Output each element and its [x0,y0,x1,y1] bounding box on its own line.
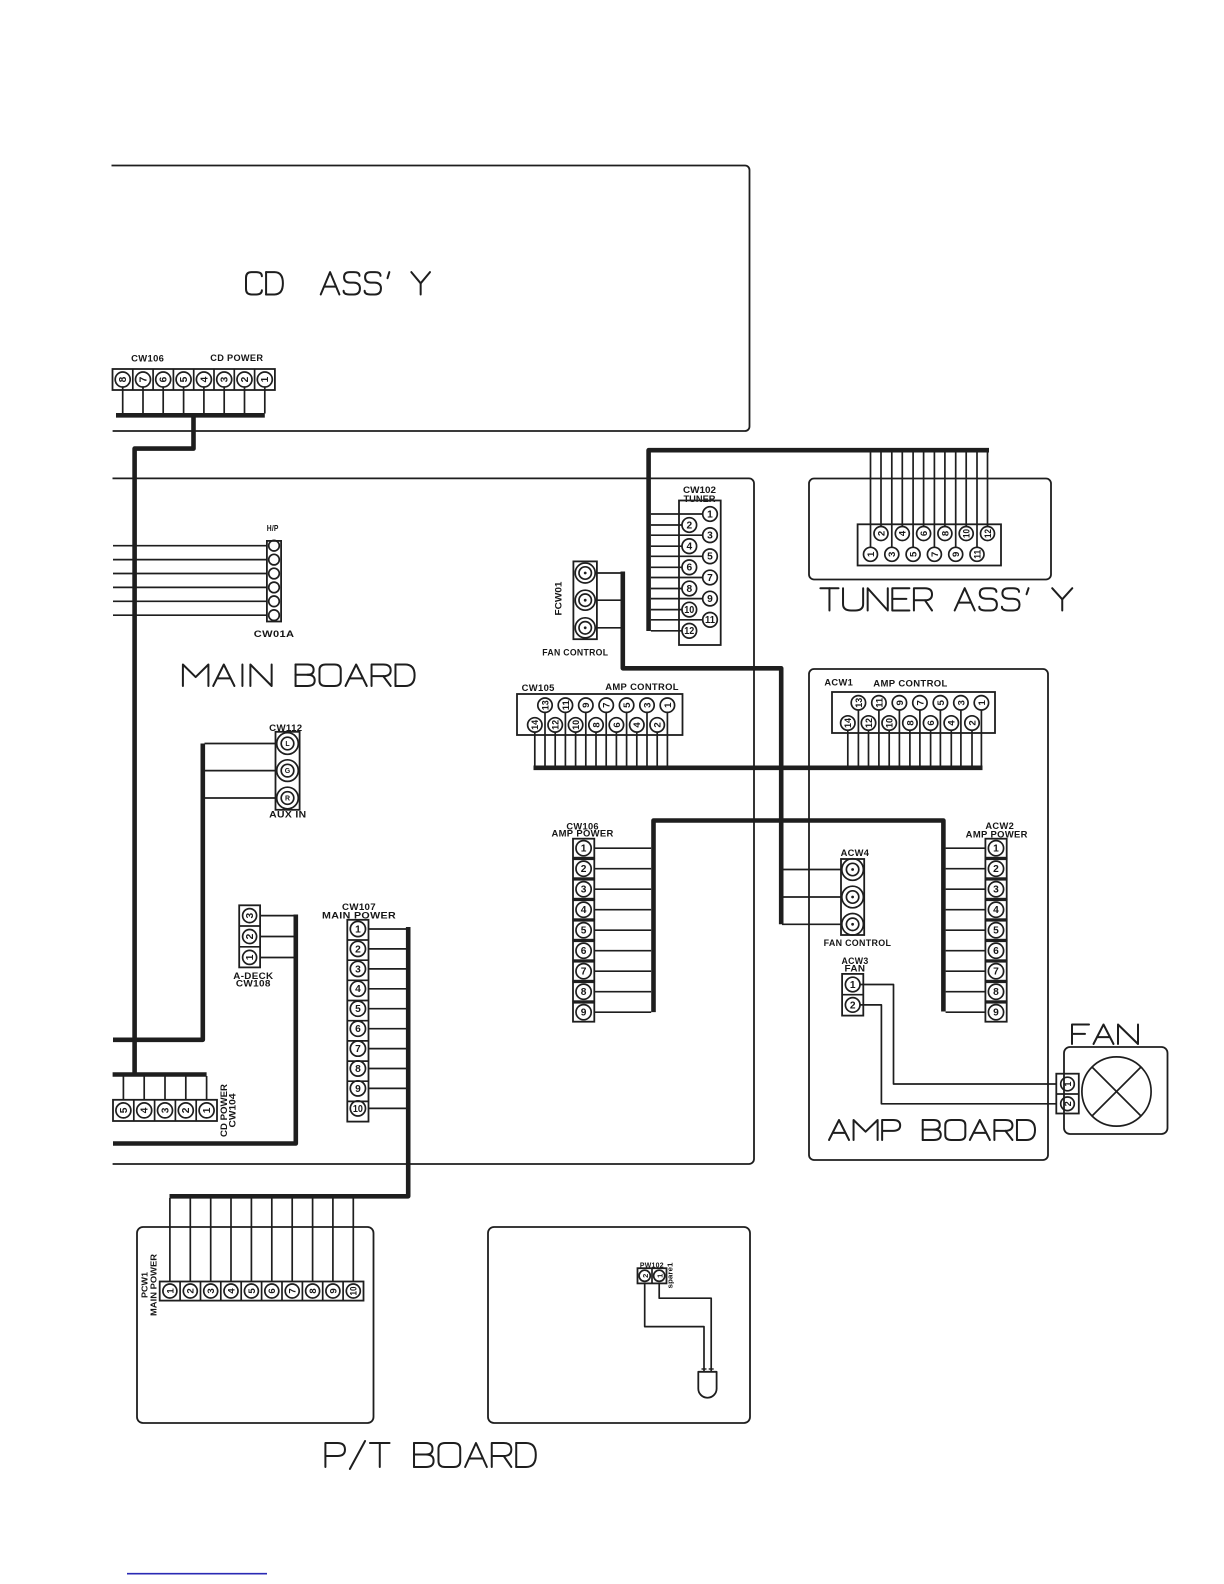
wires from CW106 pins to CD-power bundle [123,387,265,414]
svg-text:FAN CONTROL: FAN CONTROL [824,938,892,948]
svg-text:10: 10 [684,605,694,616]
wires bundle to CW104 pins (5x) [123,1076,206,1100]
wires CW107 to main-power cable (10x) [369,929,407,1108]
svg-text:2: 2 [245,933,256,939]
connector PCW1 (MAIN POWER) body (10 pins) [160,1282,364,1301]
svg-text:6: 6 [686,563,692,574]
thick cable CW106 to CW104 (CD POWER) [135,414,194,1075]
svg-text:G: G [285,768,291,775]
svg-text:10: 10 [349,1287,360,1296]
svg-text:4: 4 [947,720,958,726]
svg-text:6: 6 [993,946,999,957]
board title P/T BOARD [325,1441,535,1469]
svg-text:14: 14 [530,719,541,730]
title FAN [1072,1025,1138,1045]
svg-text:AUX IN: AUX IN [269,810,306,820]
svg-text:3: 3 [642,703,653,708]
cable bundle bar above CW104 [113,1072,207,1077]
connector CW106 AMP POWER body (9 pins) [573,839,594,1022]
svg-text:CW105: CW105 [522,683,555,693]
svg-text:6: 6 [926,720,937,725]
svg-text:CW108: CW108 [236,979,271,989]
svg-text:9: 9 [581,703,592,708]
svg-text:1: 1 [260,376,271,382]
connector CW105 body (14 pins zigzag) [517,694,683,735]
svg-text:2: 2 [686,520,692,531]
svg-text:ACW1: ACW1 [824,678,853,688]
wires fan-control cable to ACW4 jacks (3x) [782,870,841,925]
svg-text:7: 7 [138,376,149,382]
board outline: MAIN BOARD (open left side) [113,478,755,1164]
svg-text:6: 6 [919,531,930,536]
svg-text:FAN: FAN [845,964,866,974]
board outline: CD ASS'Y (open left side) [112,166,750,432]
svg-text:7: 7 [581,967,587,978]
svg-text:3: 3 [160,1107,171,1113]
board outline: P/T BOARD [137,1227,374,1423]
svg-text:FCW01: FCW01 [554,582,564,616]
svg-text:12: 12 [864,718,875,728]
svg-text:10: 10 [885,718,896,728]
board title MAIN BOARD [183,665,415,686]
thick amp-control cable CW105 to ACW1 [534,765,983,770]
svg-text:5: 5 [993,926,999,937]
svg-text:4: 4 [199,376,210,382]
svg-text:8: 8 [686,584,692,595]
svg-text:4: 4 [581,905,587,916]
svg-text:8: 8 [905,720,916,726]
svg-text:9: 9 [328,1288,339,1293]
connector ACW4 body with RCA jacks [841,859,864,935]
svg-text:1: 1 [977,699,988,705]
svg-text:9: 9 [355,1084,361,1095]
svg-text:2: 2 [240,376,251,382]
svg-text:4: 4 [686,542,692,553]
svg-text:6: 6 [267,1288,278,1293]
svg-text:2: 2 [181,1107,192,1113]
svg-text:2: 2 [355,944,361,955]
wires ACW1 pins down to amp-control cable (14x) [848,710,982,766]
svg-text:12: 12 [551,720,562,730]
svg-text:11: 11 [972,549,983,559]
svg-text:14: 14 [843,717,854,728]
svg-text:5: 5 [581,926,587,937]
svg-text:8: 8 [993,987,999,998]
wires from CW112 AUX jacks to aux cable (3x) [205,744,276,799]
connector ACW2 body (9 pins) [985,839,1006,1022]
svg-text:AMP CONTROL: AMP CONTROL [873,679,948,689]
svg-text:5: 5 [247,1288,258,1294]
svg-text:CW104: CW104 [227,1094,237,1128]
wire PW102 pin1 to LED [659,1283,711,1371]
wire ACW3 pin2 to fan pin2 [860,1005,1056,1104]
board outline: power/LED board (PW102) [488,1227,750,1423]
connector ACW1 body (14 pins zigzag) [832,692,995,733]
thick aux-in cable to board edge [113,744,203,1040]
svg-text:6: 6 [612,722,623,727]
svg-text:3: 3 [707,531,713,542]
svg-text:5: 5 [355,1004,361,1015]
svg-text:6: 6 [581,946,587,957]
svg-text:1: 1 [850,980,856,991]
connector ACW3 body (2 pins) [842,974,863,1016]
wire PW102 pin2 to LED [645,1283,704,1371]
svg-text:1: 1 [581,844,587,855]
svg-text:5: 5 [622,702,633,708]
svg-text:6: 6 [159,376,170,382]
wires FCW01 jacks to fan-control cable (3x) [597,573,621,628]
svg-text:AMP POWER: AMP POWER [552,828,614,838]
svg-text:9: 9 [707,594,713,605]
wires CW102 pins to tuner cable (12x) [651,514,703,631]
svg-text:13: 13 [540,700,551,710]
board title TUNER ASS' Y [820,588,1072,610]
svg-text:5: 5 [707,552,713,563]
svg-text:3: 3 [887,552,898,557]
svg-text:1: 1 [355,924,361,935]
fan motor symbol (circle with X) [1082,1057,1151,1126]
svg-text:5: 5 [179,376,190,382]
svg-text:ACW4: ACW4 [841,848,870,858]
svg-text:3: 3 [581,885,587,896]
board outline: AMP BOARD [809,669,1048,1160]
svg-text:9: 9 [993,1008,999,1019]
svg-text:1: 1 [866,551,877,557]
svg-text:4: 4 [632,722,643,728]
svg-text:2: 2 [641,1274,650,1278]
svg-text:7: 7 [993,967,999,978]
svg-text:1: 1 [165,1288,176,1294]
svg-text:7: 7 [355,1044,361,1055]
svg-text:7: 7 [288,1288,299,1293]
thick tuner cable CW102 to TUNER ASS'Y [649,450,989,631]
svg-text:CW01A: CW01A [254,629,295,639]
svg-text:2: 2 [850,1000,856,1011]
svg-text:2: 2 [1063,1101,1073,1106]
svg-text:5: 5 [936,699,947,705]
svg-text:11: 11 [874,697,885,708]
svg-text:12: 12 [983,529,994,538]
svg-text:3: 3 [993,885,999,896]
LED lamp symbol [698,1369,716,1398]
svg-text:5: 5 [909,551,920,557]
svg-text:2: 2 [653,722,664,727]
svg-text:R: R [285,796,290,803]
svg-text:1: 1 [656,1274,665,1278]
svg-text:CW106: CW106 [131,354,164,364]
svg-text:1: 1 [202,1107,213,1113]
thick amp-power cable CW106 to ACW2 [654,821,944,1013]
svg-text:7: 7 [915,700,926,705]
wire ACW3 pin1 to fan pin1 [860,985,1056,1085]
wires from CW01A to board edge (6x) [113,546,267,616]
wires CW108 to a-deck cable (3x) [260,916,294,958]
wires tuner cable down to tuner connector (12x) [871,452,988,547]
svg-text:10: 10 [571,720,582,730]
svg-text:4: 4 [355,984,361,995]
svg-text:9: 9 [895,700,906,705]
svg-text:3: 3 [956,700,967,705]
svg-text:1: 1 [707,509,713,520]
wires CW106 amp-power to cable (9x) [594,848,651,1012]
connector CW01A (headphone) body [267,540,281,621]
svg-text:7: 7 [602,703,613,708]
svg-text:4: 4 [226,1288,237,1294]
board outline: FAN unit [1064,1047,1168,1134]
cable bundle bar under CW106 [116,413,265,418]
svg-text:2: 2 [186,1288,197,1293]
wires ACW2 to amp-power cable (9x) [946,848,986,1012]
connector CW102 body (12 pins zigzag) [679,501,721,646]
board title CD ASS' Y [246,272,430,294]
svg-text:FAN CONTROL: FAN CONTROL [542,648,608,658]
svg-text:4: 4 [993,905,999,916]
svg-text:2: 2 [876,531,887,536]
svg-text:4: 4 [898,530,909,536]
svg-text:11: 11 [705,615,715,626]
thick main-power cable CW107 to PCW1 [170,927,409,1196]
svg-text:6: 6 [355,1024,361,1035]
svg-text:3: 3 [245,912,256,918]
svg-text:L: L [285,741,290,748]
svg-text:3: 3 [220,376,231,382]
connector CW106 body (8 pins) [113,369,275,390]
svg-text:8: 8 [591,722,602,728]
connector CW112 (AUX IN) body with RCA jacks L G R [276,732,300,810]
svg-text:H/P: H/P [267,523,279,533]
svg-text:TUNER: TUNER [684,494,717,504]
svg-text:MAIN POWER: MAIN POWER [149,1254,159,1316]
svg-text:5: 5 [119,1107,130,1113]
wires CW105 pins down to amp-control cable (14x) [535,712,668,765]
board title AMP BOARD [829,1120,1035,1140]
svg-text:11: 11 [561,700,572,711]
svg-text:1: 1 [245,954,256,960]
connector CW104 (CD POWER) body (5 pins) [113,1100,217,1121]
thick fan-control cable FCW01 to ACW4 [623,572,781,925]
footer blue rule [127,1573,267,1575]
svg-text:8: 8 [581,987,587,998]
svg-text:8: 8 [355,1064,361,1075]
svg-text:12: 12 [684,626,694,637]
svg-text:7: 7 [707,573,713,584]
svg-text:10: 10 [962,529,973,538]
svg-text:8: 8 [308,1288,319,1294]
board outline: TUNER ASS'Y [809,479,1051,580]
svg-text:4: 4 [140,1107,151,1113]
connector FCW01 body with RCA jacks [573,561,597,639]
tuner board connector body (12 pins zigzag) [858,524,1001,565]
svg-text:2: 2 [581,864,587,875]
wires main-power cable to PCW1 (10x) [170,1198,353,1282]
svg-text:7: 7 [930,552,941,557]
svg-text:2: 2 [967,720,978,725]
connector PW102 body (2 pins) [638,1268,667,1283]
svg-text:9: 9 [951,552,962,557]
connector CW107 (MAIN POWER) body (10 pins) [347,920,368,1122]
thick a-deck cable to board edge [113,915,296,1144]
svg-text:3: 3 [355,964,361,975]
svg-text:AMP CONTROL: AMP CONTROL [605,682,679,692]
svg-text:8: 8 [118,376,129,382]
svg-text:1: 1 [993,844,999,855]
svg-text:CD POWER: CD POWER [210,353,263,363]
connector CW108 (A-DECK) body (3 pins) [239,905,260,967]
svg-text:2: 2 [993,864,999,875]
svg-text:spare1: spare1 [666,1263,675,1289]
svg-text:13: 13 [854,698,865,708]
svg-text:1: 1 [663,702,674,708]
svg-text:9: 9 [581,1008,587,1019]
svg-text:8: 8 [940,530,951,536]
svg-text:10: 10 [353,1104,363,1115]
fan connector body (2 pins) [1056,1074,1079,1114]
svg-text:3: 3 [206,1288,217,1293]
svg-text:1: 1 [1063,1081,1073,1086]
